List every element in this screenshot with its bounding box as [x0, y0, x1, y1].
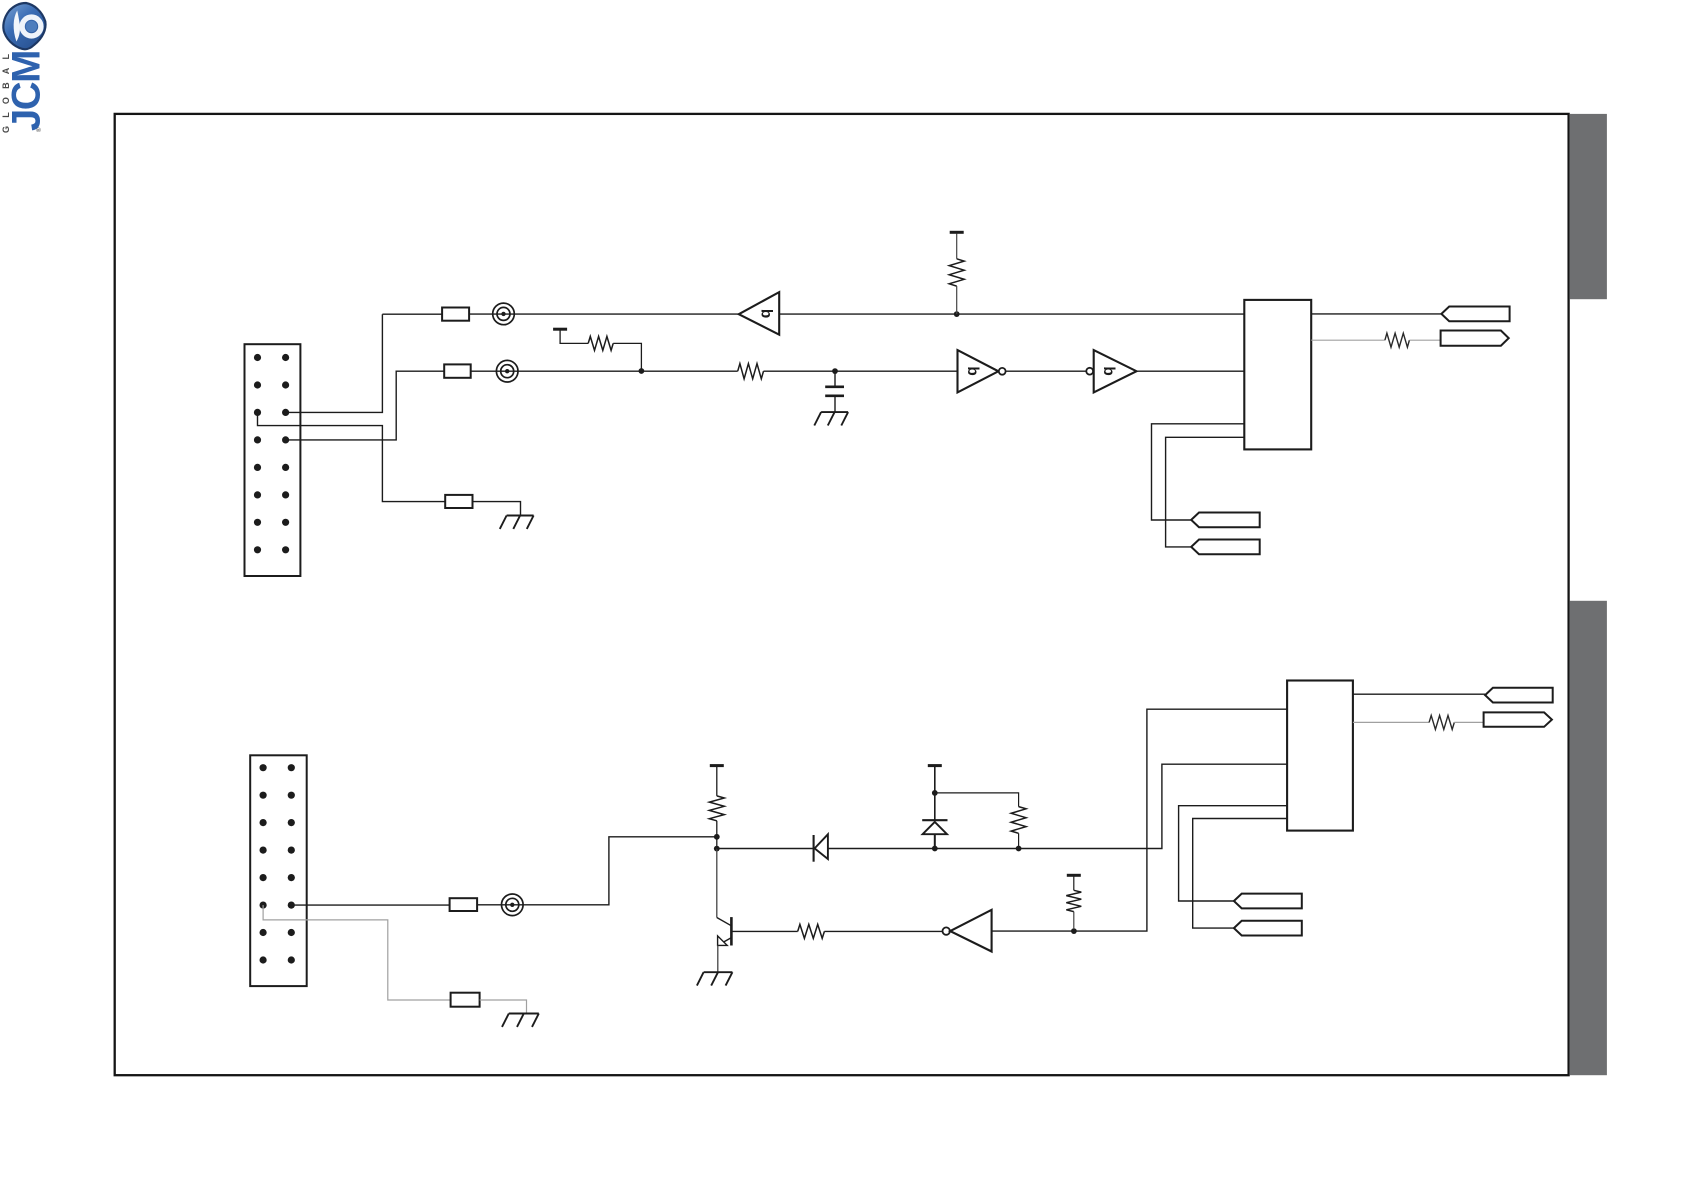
wire IC1 to harness arrow P1	[1311, 313, 1441, 315]
junction node collector net	[714, 834, 720, 840]
JCM Global logo emblem (rotated pick)	[3, 3, 45, 49]
wire rail to R1	[956, 234, 958, 259]
wire IC2 lower pin A to arrow P7	[1179, 806, 1288, 901]
svg-text:b: b	[1100, 366, 1117, 375]
inverter U4 (bubble on output, points left)	[943, 910, 992, 952]
wire: CN1 pin row4-right to second net riser	[286, 371, 445, 440]
wire diode net to IC2	[1019, 764, 1288, 848]
gray side tab upper	[1570, 114, 1607, 299]
shield contact symbol E1	[493, 303, 515, 325]
transistor Q1 (NPN)	[717, 917, 732, 972]
inverter U2 (output bubble, label b)	[958, 350, 1006, 392]
wire R2 to second net junction	[613, 343, 641, 370]
wire R3 to buffer U2	[764, 370, 958, 372]
resistor R2 (pull-up, horizontal)	[588, 336, 613, 350]
ferrite bead FB3 (ground branch)	[445, 495, 472, 508]
svg-text:b: b	[964, 366, 981, 375]
harness arrow P7	[1234, 894, 1302, 909]
wire U1 input from IC1 with pull-up node	[779, 313, 1244, 315]
inverter U3 (input bubble, label b)	[1086, 350, 1136, 392]
wire rail to R5	[716, 767, 718, 796]
harness arrow P6 (right pointing)	[1484, 712, 1552, 726]
junction node at pull-up R1	[954, 311, 960, 317]
wire R7 to inverter U4	[824, 930, 942, 932]
gray wire CN2 row6-left to bead FB5	[263, 905, 451, 1000]
wire rail bar to R2	[560, 330, 588, 343]
resistor R3 (series, second net)	[738, 364, 764, 379]
harness arrow P1	[1441, 307, 1509, 322]
wire D1 to zener node	[828, 848, 935, 850]
wire FB3 to chassis ground	[473, 502, 521, 516]
wire R5 down to transistor collector	[716, 821, 718, 849]
wire IC2 to harness arrow P5	[1353, 693, 1485, 695]
ferrite bead FB4	[450, 898, 478, 911]
wire: top net horizontal run to bead FB1	[382, 313, 443, 315]
diode D1 (cathode left)	[814, 834, 828, 861]
svg-text:GLOBAL: GLOBAL	[1, 46, 11, 133]
resistor R8 (pull-up)	[1066, 890, 1081, 911]
resistor R7 (base series)	[798, 924, 825, 938]
resistor R5 (collector pull-up)	[709, 796, 724, 821]
junction node diode branch	[714, 846, 720, 852]
wire collector vertical	[716, 849, 718, 918]
wire: CN1 pin row3-left jog down to ground branch	[258, 412, 446, 501]
power rail bar for R2 branch	[553, 328, 567, 331]
wire zener node to R6 node	[935, 848, 1019, 850]
harness arrow P5	[1485, 688, 1553, 703]
gray wire R4 to harness arrow P2	[1409, 339, 1440, 341]
wire IC1 lower pin A to arrow P3	[1152, 424, 1245, 520]
wire U2 to U3	[1006, 370, 1086, 372]
wire R6 to diode net	[1018, 833, 1020, 848]
connector CN1 (top circuit, 2x8 header)	[245, 344, 301, 576]
gray wire IC1 to resistor R4	[1311, 339, 1385, 341]
harness arrow P3	[1191, 513, 1260, 528]
resistor R4 (series, gray net)	[1385, 333, 1410, 347]
harness arrow P8	[1234, 921, 1302, 936]
shield contact symbol E2	[496, 360, 518, 382]
junction node zener anode	[932, 846, 938, 852]
shield contact symbol E3	[502, 894, 524, 916]
harness arrow P4	[1191, 540, 1260, 555]
gray side tab lower	[1570, 601, 1607, 1075]
chassis ground G3	[502, 1014, 539, 1027]
chassis ground G4 (emitter)	[697, 972, 733, 985]
wire junction to C1	[834, 371, 836, 386]
svg-text:JCM: JCM	[5, 51, 49, 131]
harness arrow P2 (right pointing)	[1441, 331, 1509, 346]
wire R1 to junction	[956, 286, 958, 314]
chassis ground G1	[500, 516, 534, 529]
page frame border	[115, 114, 1569, 1075]
junction node at capacitor C1	[832, 368, 838, 374]
IC2 (photo sensor block)	[1287, 681, 1353, 831]
resistor R1 (pull-up on top net)	[949, 259, 964, 286]
junction node pull-up R8	[1071, 928, 1077, 934]
wire IC1 lower pin B to arrow P4	[1166, 437, 1245, 547]
power rail bar for R1	[950, 231, 964, 234]
junction node R2/second net	[639, 368, 645, 374]
JCM logo wordmark (rotated)	[1, 46, 49, 133]
wire CN2 row6-right to bead FB4	[291, 904, 450, 906]
chassis ground G2 (capacitor)	[814, 412, 848, 425]
wire: CN1 pin row3-right to top net vertical riser	[286, 314, 383, 412]
wire Q1 base to series resistor R7	[731, 930, 797, 932]
power rail bar for R8	[1067, 874, 1081, 877]
wire rail to R8	[1073, 877, 1075, 891]
wire D2 node to R6	[935, 793, 1019, 807]
gray wire R8 to junction	[1073, 912, 1075, 929]
wire FB1 to shield contact E1	[469, 313, 739, 315]
wire diode net to D1	[717, 848, 814, 850]
junction node R6 bottom	[1016, 846, 1022, 852]
gray wire IC2 to resistor R9	[1353, 721, 1429, 723]
clamp diode D2 (pointing up to rail)	[922, 767, 947, 849]
ferrite bead FB5 (ground branch)	[451, 993, 480, 1007]
svg-text:®: ®	[36, 127, 43, 132]
wire U4 input net to IC2	[992, 709, 1288, 931]
buffer U1 (left-pointing, label b)	[739, 292, 779, 335]
junction node D2/R6 branch	[932, 790, 938, 796]
power rail bar for D2	[928, 764, 942, 767]
resistor R9 (series, gray net)	[1429, 715, 1454, 729]
IC1 (photo sensor block)	[1244, 300, 1311, 450]
ferrite bead FB2	[444, 364, 471, 377]
wire IC2 lower pin B to arrow P8	[1193, 819, 1287, 929]
svg-text:b: b	[757, 309, 774, 318]
ferrite bead FB1	[442, 308, 469, 321]
wire FB4 to shield contact E3	[477, 837, 717, 905]
capacitor C1	[825, 387, 844, 412]
wire FB2 to shield contact E2	[471, 370, 738, 372]
wire U3 to IC1	[1137, 370, 1245, 372]
resistor R6	[1011, 807, 1026, 834]
connector CN2 (bottom circuit, 2x8 header)	[250, 755, 307, 986]
power rail bar for R5	[710, 764, 724, 767]
gray wire FB5 to chassis ground	[480, 1000, 527, 1014]
gray wire R9 to harness arrow P6	[1454, 721, 1483, 723]
